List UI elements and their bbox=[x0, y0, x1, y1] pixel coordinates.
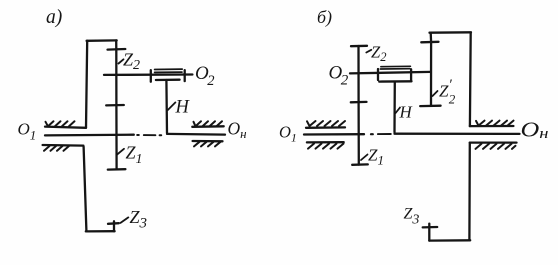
O1 upper bearing line (scheme a) bbox=[45, 127, 86, 128]
planet gear Z2 (scheme b) bbox=[357, 46, 359, 102]
ring gear Z3 frame bottom (scheme a) bbox=[86, 230, 115, 232]
carrier bearing block left bar (scheme b) bbox=[377, 69, 379, 80]
label Z2 pointer dash (scheme b) bbox=[366, 50, 371, 53]
svg-text:O1: O1 bbox=[18, 120, 37, 143]
carrier H vertical (scheme a) bbox=[165, 80, 168, 133]
label O2 (scheme a) bbox=[195, 63, 214, 89]
sun gear Z1 (scheme b) bbox=[357, 102, 359, 165]
svg-text:Z1: Z1 bbox=[126, 143, 143, 168]
mesh tick ring Z3 / planet Z2' (scheme b) bbox=[421, 41, 438, 44]
svg-text:Z3: Z3 bbox=[404, 206, 420, 228]
output shaft to O_n (scheme a) bbox=[167, 133, 225, 136]
ring gear Z3 bottom rim tooth tick (scheme b) bbox=[423, 226, 438, 229]
svg-text:Oн: Oн bbox=[521, 118, 549, 143]
label H (scheme b) bbox=[399, 103, 414, 122]
svg-text:Z1: Z1 bbox=[368, 146, 384, 168]
O_n lower bearing hatch (scheme b) bbox=[476, 144, 516, 149]
svg-text:H: H bbox=[399, 103, 414, 122]
carrier bearing block top plate stroke 2 (scheme a) bbox=[155, 71, 182, 73]
carrier H vertical (scheme b) bbox=[393, 82, 396, 133]
label O1 (scheme b) bbox=[279, 123, 297, 145]
output shaft to O_n (scheme b) bbox=[395, 133, 520, 135]
O_n lower bearing hatch (scheme a) bbox=[194, 142, 221, 147]
label O_n (scheme b) bbox=[521, 118, 549, 143]
sun gear Z1 bottom tick (scheme a) bbox=[108, 168, 126, 171]
svg-text:а): а) bbox=[46, 7, 62, 28]
O_n upper bearing line (scheme a) bbox=[192, 125, 223, 128]
O1 upper bearing line (scheme b) bbox=[306, 126, 345, 129]
svg-text:Z′2: Z′2 bbox=[439, 77, 456, 107]
ring gear Z3 frame top (scheme a) bbox=[87, 39, 117, 42]
axis centerline dash-dot (scheme b) bbox=[371, 133, 373, 135]
svg-text:Z2: Z2 bbox=[123, 50, 140, 74]
label Z1 (scheme b) bbox=[368, 146, 384, 168]
O1 lower bearing line (scheme a) bbox=[43, 144, 84, 147]
label Z3 (scheme a) bbox=[130, 207, 148, 232]
label Z3 (scheme b) bbox=[404, 206, 420, 228]
label H pointer dash (scheme b) bbox=[396, 108, 400, 114]
O_n lower bearing line (scheme a) bbox=[193, 140, 223, 143]
svg-text:O2: O2 bbox=[329, 63, 349, 89]
carrier bearing block bottom plate (scheme a) bbox=[156, 79, 180, 82]
svg-text:Z3: Z3 bbox=[130, 207, 148, 232]
carrier bearing block top plate stroke 2 (scheme b) bbox=[380, 68, 410, 70]
ring gear Z3 top rim (scheme a) bbox=[115, 40, 117, 49]
ring gear Z3 frame right vertical lower (scheme b) bbox=[468, 143, 471, 241]
carrier bearing block top plate stroke 1 (scheme a) bbox=[155, 68, 183, 70]
label O1 (scheme a) bbox=[18, 120, 37, 143]
ring gear Z3 frame top (scheme b) bbox=[430, 31, 472, 34]
label Z3 pointer dash (scheme a) bbox=[121, 217, 129, 223]
carrier bearing block right bar (scheme a) bbox=[184, 70, 186, 81]
ring gear Z3 bottom rim (scheme a) bbox=[113, 221, 115, 231]
sun gear Z1 (scheme a) bbox=[115, 105, 117, 169]
planet axle O2 (scheme b) bbox=[350, 72, 431, 74]
ring gear Z3 frame left vertical lower (scheme a) bbox=[84, 147, 87, 231]
carrier bearing block left bar (scheme a) bbox=[150, 70, 152, 82]
label H pointer dash (scheme a) bbox=[168, 102, 176, 110]
ring gear Z3 frame right vertical upper (scheme b) bbox=[469, 33, 472, 127]
planet rim Z2' bottom tick (scheme b) bbox=[420, 105, 440, 108]
svg-text:б): б) bbox=[317, 7, 332, 28]
svg-text:O2: O2 bbox=[195, 63, 214, 89]
O1 lower bearing hatch (scheme b) bbox=[308, 144, 344, 149]
O_n upper bearing hatch (scheme a) bbox=[194, 121, 223, 126]
O1 upper bearing hatch (scheme a) bbox=[46, 121, 75, 126]
input shaft O1 (scheme a) bbox=[45, 134, 134, 137]
ring gear Z3 top rim (scheme b) bbox=[430, 33, 433, 42]
label Z2' (scheme b) bbox=[439, 77, 456, 107]
input shaft O1 (scheme b) bbox=[304, 133, 364, 136]
label O2 (scheme b) bbox=[329, 63, 349, 89]
ring gear Z3 frame left vertical upper (scheme a) bbox=[86, 41, 87, 128]
axis centerline dash-dot (scheme a) bbox=[137, 134, 139, 136]
O1 lower bearing line (scheme b) bbox=[307, 141, 344, 143]
mesh tick planet Z2 / sun Z1 (scheme a) bbox=[106, 104, 124, 107]
ring gear Z3 frame bottom (scheme b) bbox=[429, 239, 470, 242]
mesh tick planet Z2 / sun Z1 (scheme b) bbox=[351, 101, 367, 104]
planet rim Z2' (scheme b) bbox=[430, 42, 432, 106]
sun gear Z1 bottom tick (scheme b) bbox=[352, 163, 368, 166]
carrier bearing block top plate stroke 1 (scheme b) bbox=[381, 65, 411, 67]
planet axle O2 (scheme a) bbox=[104, 73, 192, 76]
svg-text:Oн: Oн bbox=[228, 119, 247, 142]
label H (scheme a) bbox=[175, 98, 191, 118]
scheme a: figure label а) bbox=[46, 7, 62, 28]
carrier bearing block bottom plate (scheme b) bbox=[379, 80, 411, 83]
label Z2 (scheme b) bbox=[371, 43, 386, 65]
label Z1 pointer dash (scheme a) bbox=[117, 149, 125, 155]
mesh tick ring Z3 / planet Z2 (scheme a) bbox=[108, 48, 126, 51]
carrier bearing block right bar (scheme b) bbox=[410, 69, 412, 80]
O1 lower bearing hatch (scheme a) bbox=[44, 146, 69, 151]
svg-text:O1: O1 bbox=[279, 123, 297, 145]
O1 upper bearing hatch (scheme b) bbox=[307, 121, 345, 126]
O_n lower bearing line (scheme b) bbox=[470, 141, 517, 143]
O_n upper bearing line (scheme b) bbox=[470, 125, 514, 127]
planet gear Z2 (scheme a) bbox=[115, 49, 117, 105]
svg-text:Z2: Z2 bbox=[371, 43, 386, 65]
ring gear Z3 bottom rim tooth tick (scheme a) bbox=[108, 222, 119, 225]
label Z2 pointer dash (scheme a) bbox=[119, 59, 124, 63]
label Z2 (scheme a) bbox=[123, 50, 140, 74]
label Z1 pointer dash (scheme b) bbox=[361, 155, 368, 161]
O_n upper bearing hatch (scheme b) bbox=[476, 121, 514, 126]
label Z2' pointer dash (scheme b) bbox=[433, 91, 438, 96]
label Z1 (scheme a) bbox=[126, 143, 143, 168]
ring gear Z3 bottom rim (scheme b) bbox=[428, 224, 430, 241]
scheme b: figure label б) bbox=[317, 7, 332, 28]
label O_n (scheme a) bbox=[228, 119, 247, 142]
planet gear Z2 top tick (scheme b) bbox=[351, 45, 367, 48]
svg-text:H: H bbox=[175, 98, 191, 118]
